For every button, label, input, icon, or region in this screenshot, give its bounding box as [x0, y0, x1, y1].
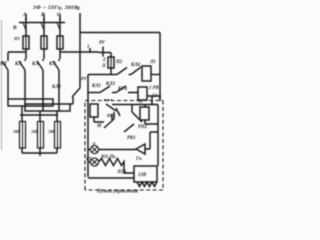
switch blade C	[57, 23, 60, 30]
rung2 wire left	[88, 92, 100, 94]
fuse P2	[41, 36, 47, 49]
heater EN1 label	[13, 129, 20, 134]
supply label 3Ф ~ 50Гц 380В	[32, 5, 78, 11]
horn wire up	[145, 132, 158, 149]
horn Gu	[132, 144, 145, 154]
heater EN1	[20, 122, 26, 149]
bell ZV box	[134, 166, 157, 182]
svg-text:0: 0	[77, 6, 80, 12]
right rail	[159, 33, 161, 97]
svg-text:1: 1	[87, 45, 89, 50]
svg-text:3Ф ~ 50Гц, 380В: 3Ф ~ 50Гц, 380В	[32, 5, 78, 11]
wire phase B drop	[43, 14, 45, 22]
relay RP coil label	[138, 99, 143, 105]
coil RV label	[149, 86, 160, 91]
wire A to fuse	[25, 23, 27, 37]
heater feed bus	[20, 114, 58, 116]
neutral 0 label	[77, 6, 80, 12]
wire branch to first contact	[8, 49, 26, 59]
svg-text:Л: Л	[101, 64, 106, 69]
contact RV1	[132, 105, 142, 123]
svg-text:РТ: РТ	[81, 76, 87, 81]
panel caption	[96, 190, 139, 195]
phase C label	[57, 12, 61, 18]
relay RP1 label	[107, 113, 115, 118]
wire fuse3 down	[59, 49, 61, 59]
svg-text:№: №	[138, 99, 143, 105]
contact RV1 label	[138, 125, 148, 130]
contact KU4 label	[117, 87, 128, 92]
control panel dashed box	[85, 101, 163, 191]
svg-text:Л1: Л1	[149, 60, 156, 65]
contact KL1b	[19, 59, 25, 99]
wire panel rung	[112, 104, 158, 106]
relay RP coil	[140, 107, 149, 120]
key label M	[96, 124, 102, 129]
svg-text:ЛЗВ: ЛЗВ	[116, 170, 127, 175]
node 2 label	[102, 58, 106, 63]
lamp LK	[90, 158, 98, 166]
panel right rail	[157, 105, 159, 167]
contact RV2	[124, 124, 134, 132]
fuse P1 label	[13, 36, 20, 41]
svg-text:КЛ2: КЛ2	[51, 85, 62, 90]
svg-text:РУ: РУ	[99, 41, 106, 46]
heater EN3 label	[48, 129, 55, 134]
star point bracket	[22, 148, 57, 156]
svg-text:ЭН: ЭН	[31, 129, 38, 134]
contact RV2 label	[127, 136, 136, 141]
contact KL3 main	[117, 68, 127, 75]
contact KL1a label	[0, 62, 7, 67]
svg-text:П1: П1	[13, 36, 20, 41]
key contact a stem	[111, 114, 113, 120]
svg-text:1 РВ: 1 РВ	[149, 86, 160, 91]
contact KL2 label	[51, 85, 62, 90]
key contact c marks	[116, 108, 120, 116]
switch B label	[12, 25, 17, 31]
contact KL1 aux label	[91, 84, 101, 89]
contact KU1	[131, 67, 142, 75]
svg-text:ЭН: ЭН	[13, 129, 20, 134]
contact KU1 label	[130, 63, 141, 68]
svg-text:КЛ4: КЛ4	[130, 63, 141, 68]
svg-text:КЛЗ: КЛЗ	[105, 82, 116, 87]
control fuse P2	[108, 57, 114, 68]
coil RV to rail	[147, 96, 160, 104]
svg-text:М: М	[96, 124, 102, 129]
node K label	[157, 96, 162, 101]
horn label	[135, 157, 142, 162]
time relay coil RV	[138, 87, 147, 100]
bell ZV text	[138, 173, 147, 178]
svg-text:Гч: Гч	[135, 157, 142, 162]
wire B to fuse	[43, 23, 45, 37]
thermal relay RT2 heater box	[25, 104, 70, 111]
key contact b	[104, 112, 114, 128]
RT2 divider ticks	[43, 104, 59, 111]
fuse P3	[57, 36, 63, 49]
heater EN2 label	[31, 129, 38, 134]
svg-text:Л: Л	[157, 96, 162, 101]
svg-text:2: 2	[102, 58, 106, 63]
lamp LK cross	[92, 159, 98, 165]
node 1 control tap wire	[60, 51, 99, 53]
lamp LZ wire	[88, 149, 132, 151]
wire phase A drop	[25, 14, 27, 22]
key contact a	[106, 104, 116, 111]
contact KL1b label	[14, 62, 22, 67]
switch blade A	[23, 23, 26, 30]
lamp LZ cross	[92, 147, 98, 153]
thermal relay RT1 heater box	[8, 99, 53, 106]
thermal contact RT label	[81, 76, 87, 81]
contact KL1c label	[31, 62, 39, 67]
contact KL1c	[37, 59, 43, 99]
lamp LZ label	[91, 143, 96, 148]
switch RU label	[99, 41, 106, 46]
wire C to fuse	[59, 23, 61, 37]
resistor R label	[100, 155, 116, 160]
svg-text:КЛ1: КЛ1	[91, 84, 101, 89]
node 1 tick	[89, 48, 91, 53]
lamp LK label	[86, 156, 92, 161]
svg-text:Пульт управления: Пульт управления	[96, 190, 139, 195]
coil label Zh	[101, 64, 106, 69]
neutral wire drop	[79, 13, 81, 88]
rung1 wire	[111, 74, 117, 76]
phase A label	[22, 12, 27, 18]
contact KL2	[70, 88, 80, 104]
key button rect	[90, 104, 98, 117]
contact KL1d	[53, 59, 59, 104]
resistor R zigzag	[88, 159, 134, 174]
contact KU4	[116, 86, 138, 93]
wire to control fuse	[110, 53, 112, 58]
relay RP bottom wire	[145, 120, 158, 124]
node 1 label	[87, 45, 89, 50]
fuse P1	[23, 36, 29, 49]
label LZV	[116, 170, 127, 175]
page edge line left	[1, 20, 3, 150]
switch RU	[99, 47, 111, 57]
control fuse P2 label	[115, 60, 123, 65]
svg-text:РП1: РП1	[107, 113, 115, 118]
contactor coil L	[142, 66, 151, 81]
svg-text:П2: П2	[115, 60, 123, 65]
wire phase C drop	[59, 14, 61, 22]
coil L label	[149, 60, 156, 65]
svg-text:РП2: РП2	[138, 125, 148, 130]
heater EN3	[55, 122, 61, 149]
svg-text:В: В	[12, 25, 17, 31]
key stem	[94, 117, 104, 122]
wire fuse2 down	[43, 49, 45, 59]
svg-text:ЭН: ЭН	[48, 129, 55, 134]
coil L to rail	[151, 74, 160, 76]
heater EN2	[38, 122, 44, 149]
contact KL1a	[2, 59, 8, 99]
key contact a ticks	[104, 99, 112, 101]
node 12 label	[152, 94, 157, 99]
svg-text:РВ1: РВ1	[127, 136, 136, 141]
svg-text:1ЗВ: 1ЗВ	[138, 173, 147, 178]
switch blade B	[41, 23, 44, 30]
bell striker zigzag	[137, 182, 157, 187]
wire fuse to ladder	[88, 68, 111, 75]
RT1 divider ticks	[25, 99, 43, 106]
left rail	[87, 75, 89, 178]
contact KL3 label	[105, 82, 116, 87]
heater stubs	[22, 115, 57, 122]
switch B bus	[19, 22, 65, 24]
wire RT to bus	[22, 106, 57, 115]
phase B label	[40, 12, 45, 18]
contact KL1d label	[48, 62, 56, 67]
contact KL1 aux	[100, 86, 116, 93]
lamp LZ	[90, 145, 98, 153]
neutral rail to right	[80, 32, 160, 34]
bell feed	[156, 165, 158, 167]
bottom wire	[88, 177, 134, 179]
